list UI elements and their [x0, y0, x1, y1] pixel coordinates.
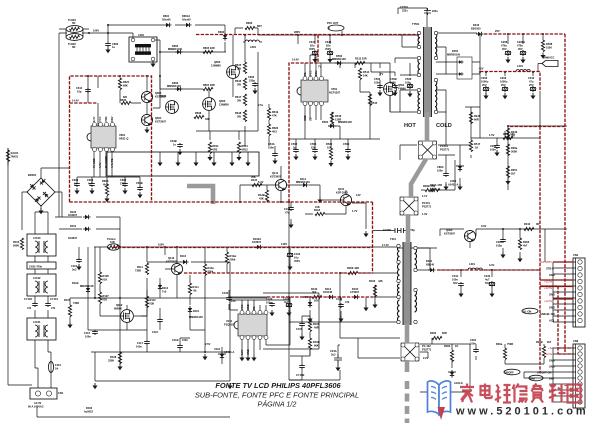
svg-text:02vz60: 02vz60: [162, 17, 171, 21]
svg-text:20V: 20V: [314, 298, 319, 302]
svg-text:100n: 100n: [374, 80, 380, 84]
svg-text:47u: 47u: [285, 210, 290, 214]
U101 grounds: [239, 355, 256, 361]
svg-text:LP4007: LP4007: [350, 290, 360, 294]
connector CN6: [573, 339, 585, 408]
svg-text:VCC: VCC: [309, 70, 313, 76]
svg-text:1000: 1000: [390, 80, 396, 84]
svg-text:C11B: C11B: [172, 338, 179, 342]
svg-text:C604: C604: [87, 178, 94, 182]
svg-text:1K: 1K: [455, 344, 458, 348]
svg-text:C208: C208: [501, 40, 508, 44]
svg-text:+12.5v: +12.5v: [544, 299, 553, 303]
connector CN4: [573, 253, 585, 327]
svg-text:-12V: -12V: [478, 67, 484, 71]
capacitor C503: [310, 142, 318, 160]
svg-text:C603: C603: [120, 178, 127, 182]
svg-text:www.520101.com: www.520101.com: [455, 406, 589, 418]
capacitor C648: [325, 40, 333, 63]
capacitor C110: [71, 258, 82, 271]
svg-text:90 A 240VAC: 90 A 240VAC: [28, 404, 44, 408]
svg-text:1N4007: 1N4007: [68, 213, 78, 217]
capacitor C603: [120, 178, 128, 194]
capacitor C121: [336, 297, 350, 322]
resistor R615: [235, 62, 247, 74]
svg-text:GND: GND: [246, 304, 250, 310]
red highlight line 3.3V: [437, 269, 540, 271]
svg-text:0V GND: 0V GND: [92, 158, 96, 168]
svg-text:C50B: C50B: [390, 77, 397, 81]
resistor R118: [305, 205, 346, 216]
svg-text:C102: C102: [294, 252, 301, 256]
svg-text:R514: R514: [363, 70, 370, 74]
svg-text:MM3D4148: MM3D4148: [80, 284, 94, 288]
capacitor C120: [222, 291, 236, 303]
node HW VCC: [538, 56, 558, 72]
svg-text:R102: R102: [13, 240, 20, 244]
transistor Q605: [141, 91, 166, 103]
inductor L301: [468, 262, 495, 270]
capacitor C506: [374, 77, 383, 96]
svg-text:100n: 100n: [437, 168, 443, 172]
ground row bottom: [92, 197, 368, 389]
svg-text:3k2: 3k2: [312, 290, 317, 294]
svg-text:R515: R515: [371, 101, 378, 105]
thick ground trace gray: [405, 324, 410, 343]
svg-text:AC IN: AC IN: [34, 401, 41, 405]
svg-text:HE01-Q: HE01-Q: [119, 136, 128, 140]
node PFC OUT: [294, 21, 344, 34]
svg-text:33K: 33K: [205, 117, 210, 121]
svg-text:C109: C109: [284, 207, 291, 211]
svg-text:200k: 200k: [230, 257, 236, 261]
svg-text:D601A: D601A: [182, 14, 190, 18]
capacitor CY501: [400, 5, 438, 15]
node 14.4V: [292, 58, 321, 69]
svg-text:C11F: C11F: [152, 330, 159, 334]
resistor R26A: [506, 144, 517, 156]
svg-text:53K: 53K: [150, 301, 155, 305]
capacitor C614: [76, 86, 91, 93]
svg-text:R516: R516: [335, 114, 342, 118]
svg-text:R618: R618: [235, 111, 242, 115]
inductor L201: [478, 64, 530, 72]
line filter LF101: [27, 318, 56, 340]
svg-text:C647: C647: [309, 40, 316, 44]
svg-text:68K: 68K: [123, 83, 128, 87]
diode D601A: [182, 14, 192, 27]
svg-text:3W: 3W: [237, 114, 241, 118]
wire VCC row: [371, 63, 410, 76]
svg-text:2.5v: 2.5v: [258, 103, 264, 107]
svg-text:C342: C342: [484, 274, 491, 278]
svg-text:0R: 0R: [536, 222, 539, 226]
capacitor C60B: [136, 181, 143, 198]
svg-text:T301: T301: [390, 237, 396, 241]
svg-text:2.2V: 2.2V: [240, 349, 244, 355]
svg-text:L604: L604: [250, 45, 256, 49]
svg-text:MMSD4148: MMSD4148: [189, 315, 203, 319]
svg-text:R246: R246: [474, 114, 481, 118]
svg-text:Q812: Q812: [116, 303, 123, 307]
resistor R620: [267, 124, 278, 136]
svg-text:KSP 2903: KSP 2903: [336, 190, 348, 194]
sub-block outline: [107, 152, 259, 176]
svg-text:0R12: 0R12: [242, 147, 249, 151]
svg-text:1K: 1K: [475, 145, 478, 149]
svg-text:100n: 100n: [182, 338, 188, 342]
watermark char 4: [513, 384, 528, 403]
wire: [289, 63, 390, 380]
red highlight line 12V: [480, 72, 540, 93]
capacitor C209: [500, 76, 508, 99]
resistor R60A: [102, 179, 110, 202]
svg-text:C614: C614: [76, 86, 83, 90]
thick ground trace gray: [425, 112, 430, 141]
svg-text:1.1V: 1.1V: [422, 194, 428, 198]
red highlight line 273 row: [184, 272, 373, 274]
svg-text:PÁGINA 1/2: PÁGINA 1/2: [258, 400, 297, 409]
svg-text:1N4007: 1N4007: [68, 236, 78, 240]
wire: [289, 297, 544, 392]
svg-text:Q601: Q601: [160, 94, 167, 98]
svg-text:SUB-FONTE, FONTE PFC E FONTE P: SUB-FONTE, FONTE PFC E FONTE PRINCIPAL: [195, 391, 359, 400]
resistor R13B: [258, 190, 269, 202]
transistor Q111: [258, 171, 287, 191]
svg-text:R10F: R10F: [313, 322, 320, 326]
svg-text:R10B: R10B: [313, 340, 320, 344]
wire: [465, 34, 567, 190]
svg-text:VCC: VCC: [98, 116, 102, 122]
svg-text:L602: L602: [138, 33, 144, 37]
svg-text:C606: C606: [248, 75, 255, 79]
capacitor CY106: [289, 356, 305, 380]
svg-text:10u: 10u: [294, 255, 299, 259]
svg-text:NCP1207: NCP1207: [329, 90, 341, 94]
resistor R303: [444, 344, 458, 362]
svg-text:2.5V: 2.5V: [205, 342, 211, 346]
svg-text:D116: D116: [180, 254, 187, 258]
svg-text:10n: 10n: [231, 299, 236, 303]
resistor R10F: [308, 320, 319, 332]
wire: [229, 273, 398, 322]
svg-text:MMSD4148: MMSD4148: [167, 84, 181, 88]
svg-text:24K: 24K: [363, 73, 368, 77]
bridge rectifier BDX01: [27, 173, 55, 214]
svg-text:CS: CS: [309, 117, 313, 121]
transistor Q602: [203, 98, 230, 111]
wire: [88, 76, 160, 126]
svg-text:3n3: 3n3: [72, 267, 77, 271]
resistor R30B: [423, 184, 435, 192]
svg-text:3W: 3W: [237, 98, 241, 102]
svg-text:R112: R112: [150, 298, 157, 302]
svg-text:VCC: VCC: [240, 304, 244, 310]
resistor R127: [98, 292, 113, 316]
red highlight line Q111 row: [70, 201, 373, 203]
svg-text:10K: 10K: [327, 145, 332, 149]
svg-text:T7501: T7501: [412, 22, 420, 26]
svg-text:Q604: Q604: [155, 116, 162, 120]
svg-text:A5431-A: A5431-A: [224, 350, 235, 354]
svg-text:F4N60: F4N60: [398, 86, 406, 90]
red highlight vertical 540: [539, 127, 541, 373]
capacitor CY101: [45, 297, 58, 310]
svg-text:Q501: Q501: [398, 83, 405, 87]
svg-text:MMSD4148: MMSD4148: [332, 57, 346, 61]
svg-text:D210: D210: [473, 23, 480, 27]
capacitor C208A: [517, 40, 526, 63]
capacitor C606: [248, 75, 258, 94]
svg-text:F401: F401: [55, 363, 61, 367]
svg-text:4.4V FB: 4.4V FB: [110, 158, 114, 168]
svg-text:LF101: LF101: [33, 320, 41, 324]
svg-text:R111: R111: [137, 265, 143, 269]
svg-text:U110: U110: [214, 347, 221, 351]
capacitor CY10F: [373, 228, 415, 242]
U101 pin labels: [240, 304, 256, 355]
capacitor C116: [172, 338, 190, 352]
svg-text:Q602: Q602: [219, 99, 226, 103]
thermistor TH102: [66, 29, 99, 50]
watermark char 6: [549, 384, 566, 403]
svg-text:82u: 82u: [326, 43, 331, 47]
svg-text:MMSD4148: MMSD4148: [296, 180, 310, 184]
svg-text:Q101: Q101: [338, 187, 345, 191]
line filter LF103: [27, 234, 56, 256]
svg-text:C64A: C64A: [268, 142, 275, 146]
svg-text:R30A 47R: R30A 47R: [430, 183, 442, 187]
capacitor C208: [501, 40, 511, 63]
svg-text:L201: L201: [517, 64, 523, 68]
svg-text:GND-BL ON: GND-BL ON: [540, 312, 555, 316]
svg-text:13NM50: 13NM50: [219, 102, 229, 106]
wire: [416, 248, 540, 291]
capacitor C502: [291, 142, 299, 160]
CN6 pin labels: [537, 346, 555, 393]
svg-text:300K: 300K: [511, 149, 517, 153]
svg-text:730K: 730K: [135, 268, 141, 272]
svg-text:C648: C648: [325, 40, 332, 44]
diode D501: [447, 49, 472, 79]
svg-text:C209: C209: [500, 76, 507, 80]
svg-text:35V: 35V: [502, 47, 507, 51]
svg-text:R303: R303: [444, 344, 451, 348]
resistor R516: [330, 112, 341, 124]
svg-text:R520: R520: [326, 142, 333, 146]
svg-text:PFC OUT: PFC OUT: [327, 21, 339, 25]
shunt U110: [205, 342, 235, 364]
svg-text:Dim: Dim: [549, 377, 555, 381]
svg-text:FSQ510: FSQ510: [224, 322, 234, 326]
diode D103A: [252, 237, 287, 249]
diode D605: [168, 44, 183, 54]
resistor R111: [135, 263, 149, 275]
red highlight line 126: [510, 126, 565, 128]
capacitor C14F: [152, 308, 163, 334]
capacitor C115: [84, 330, 98, 338]
resistor R114: [188, 275, 199, 305]
svg-text:C115: C115: [84, 331, 91, 335]
svg-text:SA101: SA101: [11, 151, 19, 155]
svg-text:100n: 100n: [136, 344, 142, 348]
svg-text:CY10B: CY10B: [296, 373, 304, 377]
resistor R304: [496, 342, 513, 360]
resistor R30A: [430, 183, 442, 192]
resistor R630: [72, 95, 131, 105]
resistor R512: [355, 57, 367, 65]
CN4 pin labels: [540, 260, 555, 323]
svg-text:CN4: CN4: [573, 253, 579, 257]
diode D113: [158, 278, 169, 298]
svg-text:100n: 100n: [490, 147, 496, 151]
svg-text:D402: D402: [86, 406, 93, 410]
pill Dim: [529, 375, 543, 381]
svg-text:VDD: VDD: [104, 116, 108, 122]
svg-text:13V: 13V: [356, 193, 361, 197]
svg-text:LF102: LF102: [33, 276, 41, 280]
resistor R618: [235, 110, 247, 122]
svg-text:0.6V: 0.6V: [481, 224, 487, 228]
diode D606: [167, 81, 183, 91]
capacitor C504: [343, 142, 351, 160]
svg-text:ON/OFF ON: ON/OFF ON: [537, 371, 552, 375]
U501 pin labels: [303, 70, 318, 121]
capacitor C210: [528, 76, 536, 99]
svg-text:HOT: HOT: [404, 123, 416, 129]
red highlight CN4 stubs: [540, 262, 573, 299]
capacitor C507: [390, 77, 398, 96]
svg-text:470u: 470u: [517, 43, 523, 47]
transistor Q604: [141, 114, 166, 133]
svg-text:25V: 25V: [495, 29, 500, 33]
svg-text:450V: 450V: [294, 259, 300, 263]
svg-text:MBR20100: MBR20100: [447, 52, 461, 56]
svg-text:3.3V: 3.3V: [489, 263, 495, 267]
svg-text:D110: D110: [193, 309, 200, 313]
resistor R102: [13, 238, 24, 250]
resistor R608: [194, 111, 210, 121]
line filter LF102: [27, 274, 56, 296]
svg-text:D113: D113: [162, 286, 169, 290]
inductor L604: [243, 40, 262, 49]
svg-text:AC3: AC3: [549, 319, 555, 323]
svg-text:0R2: 0R2: [213, 147, 218, 151]
capacitor C64A: [268, 142, 278, 164]
svg-text:C508: C508: [405, 77, 412, 81]
shunt U301: [443, 370, 463, 385]
transistor Q112: [114, 303, 133, 322]
svg-text:10p: 10p: [77, 89, 82, 93]
svg-text:CN1: CN1: [58, 391, 64, 395]
svg-text:Q110: Q110: [168, 256, 175, 260]
red highlight CN6 bus: [540, 286, 573, 354]
svg-text:10R: 10R: [110, 240, 115, 244]
svg-text:560K: 560K: [13, 243, 19, 247]
wire: [8, 148, 230, 417]
svg-text:3k7: 3k7: [511, 133, 516, 137]
svg-text:D602: D602: [218, 30, 225, 34]
svg-text:FB: FB: [303, 72, 307, 76]
svg-text:L301: L301: [469, 262, 475, 266]
capacitor C205: [490, 144, 500, 156]
svg-text:C206: C206: [481, 76, 488, 80]
svg-text:7N431: 7N431: [11, 154, 19, 158]
resistor R112: [141, 290, 156, 316]
svg-text:+12v: +12v: [548, 346, 555, 350]
resistor R102b: [369, 279, 383, 297]
svg-text:GND: GND: [549, 293, 555, 297]
resistor R520: [326, 142, 334, 167]
svg-text:470u: 470u: [501, 43, 507, 47]
svg-text:1N4148: 1N4148: [323, 290, 333, 294]
svg-text:96K: 96K: [314, 343, 319, 347]
svg-text:C210: C210: [528, 76, 535, 80]
thick ground trace gray: [406, 214, 411, 243]
svg-text:1000u: 1000u: [481, 79, 489, 83]
wire: [524, 348, 576, 402]
svg-text:R128: R128: [110, 355, 117, 359]
svg-text:PC 102: PC 102: [422, 344, 431, 348]
transistor Q501: [380, 72, 406, 95]
svg-text:R620: R620: [272, 126, 279, 130]
resistor R517: [469, 140, 480, 152]
red highlight line 25V: [484, 33, 565, 35]
diode D503: [332, 54, 346, 65]
svg-text:17.4V: 17.4V: [382, 243, 389, 247]
svg-text:1.0V: 1.0V: [422, 212, 428, 216]
svg-text:3W: 3W: [237, 66, 241, 70]
svg-text:A431-E: A431-E: [454, 381, 463, 385]
resistor R134: [251, 175, 262, 187]
capacitor C86A: [437, 165, 449, 190]
svg-text:CX02 470n: CX02 470n: [29, 265, 43, 269]
capacitor C609: [72, 178, 80, 194]
thermistor TH103: [59, 18, 89, 37]
svg-text:n08: n08: [378, 279, 383, 283]
svg-text:C503: C503: [310, 142, 317, 146]
svg-text:R605 22R: R605 22R: [203, 46, 215, 50]
red highlight line vertical B+: [372, 202, 374, 273]
svg-text:82u: 82u: [310, 43, 315, 47]
svg-text:BB1000: BB1000: [471, 26, 481, 30]
svg-text:R310: R310: [524, 222, 531, 226]
svg-text:C504: C504: [343, 142, 350, 146]
svg-text:C341: C341: [452, 274, 459, 278]
svg-text:3u3: 3u3: [331, 352, 336, 356]
transformer T7501: [412, 22, 438, 117]
thick ground trace gray: [405, 360, 410, 372]
svg-text:730K: 730K: [73, 301, 79, 305]
svg-text:D301: D301: [426, 259, 433, 263]
svg-text:FONTE TV LCD PHILIPS 40PFL3606: FONTE TV LCD PHILIPS 40PFL3606: [215, 381, 341, 390]
svg-text:47K: 47K: [272, 113, 277, 117]
svg-text:KST2907: KST2907: [155, 119, 167, 123]
svg-text:2k7: 2k7: [547, 340, 552, 344]
svg-text:R251: R251: [511, 168, 518, 172]
resistor R605: [203, 46, 215, 54]
capacitor C508: [405, 77, 413, 97]
transistor Q110: [166, 256, 183, 275]
resistor R10B: [290, 338, 320, 356]
red highlight line PFC rail: [196, 34, 419, 36]
svg-text:R611: R611: [213, 144, 220, 148]
svg-text:C506: C506: [374, 77, 381, 81]
svg-text:Q111: Q111: [272, 171, 279, 175]
svg-text:D504: D504: [322, 120, 329, 124]
svg-text:PC101: PC101: [422, 201, 430, 205]
svg-text:R249: R249: [511, 130, 518, 134]
